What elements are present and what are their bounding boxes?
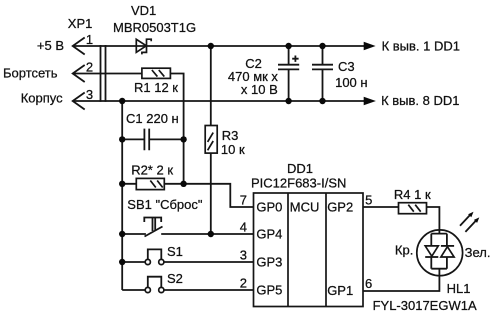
svg-text:Бортсеть: Бортсеть [3,65,58,80]
svg-text:GP5: GP5 [256,283,282,298]
svg-text:S2: S2 [167,271,183,286]
svg-text:R3: R3 [222,128,239,143]
svg-text:C3: C3 [338,59,355,74]
svg-text:5: 5 [365,193,372,208]
svg-text:К выв. 1 DD1: К выв. 1 DD1 [382,38,460,53]
svg-text:DD1: DD1 [287,161,313,176]
svg-text:10 к: 10 к [221,142,245,157]
svg-text:2: 2 [86,60,93,75]
svg-text:2: 2 [240,276,247,291]
svg-text:HL1: HL1 [447,281,471,296]
svg-text:SB1 "Сброс": SB1 "Сброс" [127,197,203,212]
svg-text:C1 220 н: C1 220 н [126,111,179,126]
svg-text:К выв. 8 DD1: К выв. 8 DD1 [381,93,459,108]
svg-text:S1: S1 [167,244,183,259]
svg-text:3: 3 [86,87,93,102]
svg-text:7: 7 [240,193,247,208]
svg-text:х 10 В: х 10 В [241,82,278,97]
svg-text:MBR0503T1G: MBR0503T1G [113,20,196,35]
svg-text:XP1: XP1 [68,16,93,31]
svg-text:Зел.: Зел. [465,245,491,260]
svg-text:PIC12F683-I/SN: PIC12F683-I/SN [251,176,346,191]
svg-text:4: 4 [240,220,247,235]
svg-text:+5 В: +5 В [37,38,64,53]
svg-text:100 н: 100 н [335,75,367,90]
svg-text:GP1: GP1 [327,283,353,298]
svg-text:GP2: GP2 [327,200,353,215]
svg-text:GP3: GP3 [256,255,282,270]
svg-text:FYL-3017EGW1A: FYL-3017EGW1A [373,298,477,313]
svg-text:VD1: VD1 [131,3,156,18]
svg-text:Корпус: Корпус [21,91,63,106]
svg-text:GP4: GP4 [256,227,282,242]
svg-text:R4 1 к: R4 1 к [394,187,431,202]
svg-text:1: 1 [86,32,93,47]
svg-text:R2* 2 к: R2* 2 к [131,162,173,177]
svg-text:R1 12 к: R1 12 к [134,80,178,95]
svg-text:6: 6 [365,276,372,291]
svg-text:3: 3 [240,248,247,263]
svg-text:GP0: GP0 [256,200,282,215]
svg-text:MCU: MCU [290,200,320,215]
svg-text:Кр.: Кр. [395,243,413,258]
